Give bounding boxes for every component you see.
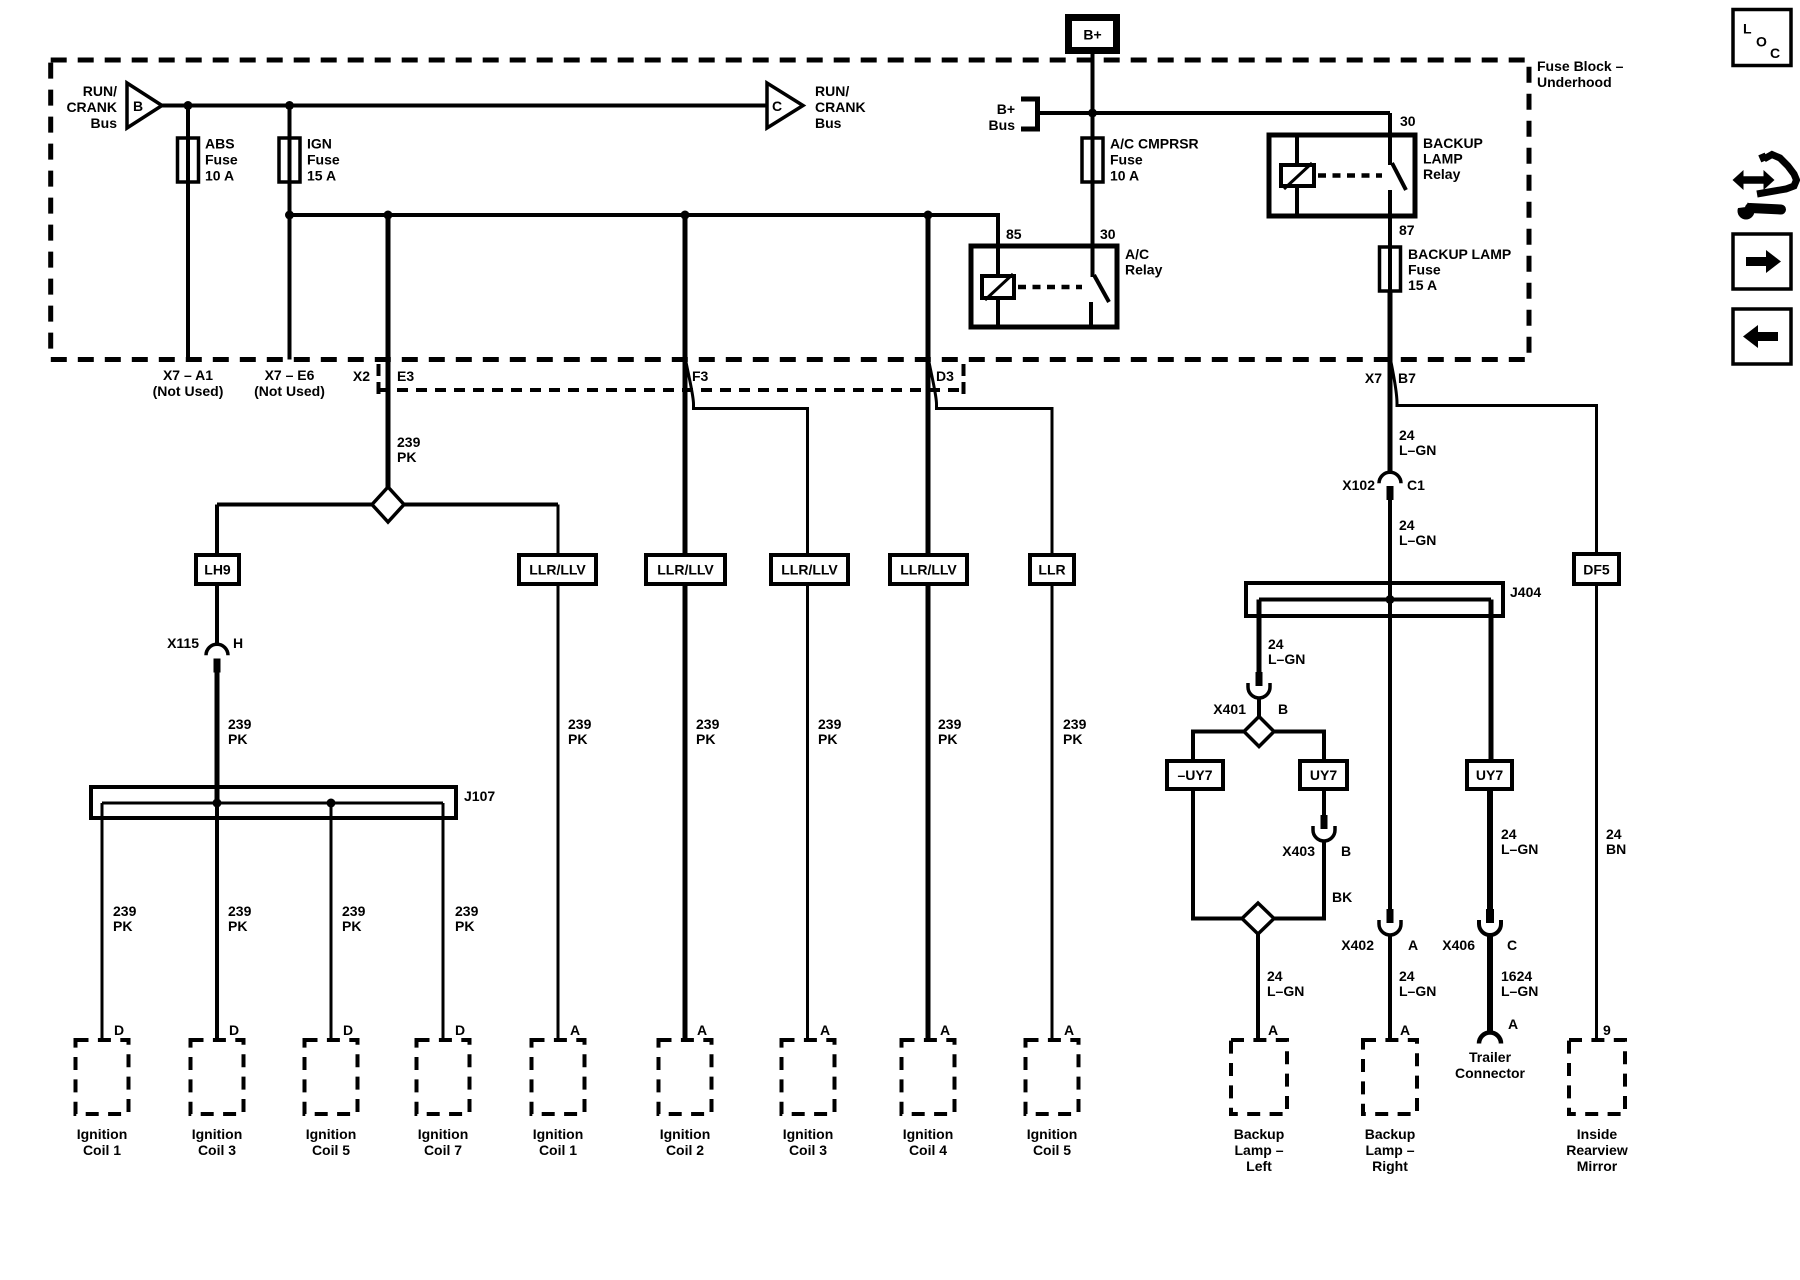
svg-text:Trailer: Trailer <box>1469 1049 1512 1065</box>
svg-text:Relay: Relay <box>1125 262 1163 278</box>
wire UY7 to X406 (heavy) <box>1487 789 1493 909</box>
dashed actuator link <box>1018 285 1082 290</box>
dashed actuator link <box>1318 173 1382 178</box>
wire X401 to splice diamond <box>1257 698 1261 718</box>
ignition coil 7 label <box>418 1126 469 1158</box>
svg-text:Bus: Bus <box>91 115 118 131</box>
wire B7 branch to DF5 <box>1391 362 1597 554</box>
svg-text:L–GN: L–GN <box>1399 983 1436 999</box>
svg-text:Inside: Inside <box>1577 1126 1618 1142</box>
svg-text:Fuse: Fuse <box>1110 152 1143 168</box>
wire label 24 BN <box>1606 826 1626 857</box>
wire B+ bus horizontal <box>1038 111 1391 115</box>
svg-text:Ignition: Ignition <box>903 1126 954 1142</box>
splice pack J107 <box>91 787 456 818</box>
splice diamond (ignition feed) <box>372 487 404 522</box>
svg-text:PK: PK <box>228 731 247 747</box>
svg-text:239: 239 <box>455 903 479 919</box>
right ignition coil 5 label <box>1027 1126 1078 1158</box>
svg-text:Ignition: Ignition <box>660 1126 711 1142</box>
ignition coil 1 box (left bank) <box>76 1040 129 1114</box>
svg-text:D: D <box>114 1022 124 1038</box>
svg-text:Ignition: Ignition <box>192 1126 243 1142</box>
svg-text:24: 24 <box>1399 968 1415 984</box>
svg-text:239: 239 <box>342 903 366 919</box>
svg-text:Lamp –: Lamp – <box>1365 1142 1414 1158</box>
svg-text:D: D <box>343 1022 353 1038</box>
label X7-E6 Not Used <box>254 367 325 399</box>
svg-text:X401: X401 <box>1213 701 1246 717</box>
svg-text:X402: X402 <box>1341 937 1374 953</box>
wire F3 branch to coil 3 <box>686 362 808 1040</box>
svg-text:–UY7: –UY7 <box>1177 767 1212 783</box>
ignition coil 3 box <box>191 1040 244 1114</box>
wire label 24 L-GN (backup left) <box>1267 968 1304 999</box>
connector X115 pin H <box>206 644 228 672</box>
ECM connector dashed boundary <box>378 364 964 394</box>
svg-text:Coil 1: Coil 1 <box>83 1142 121 1158</box>
svg-text:Backup: Backup <box>1365 1126 1416 1142</box>
wire 1624 L-GN to trailer connector <box>1487 935 1493 1032</box>
svg-text:239: 239 <box>1063 716 1087 732</box>
backup lamp left box <box>1231 1040 1287 1114</box>
RUN/CRANK Bus label (left) <box>66 83 117 131</box>
svg-text:239: 239 <box>228 903 252 919</box>
svg-text:X2: X2 <box>353 368 370 384</box>
svg-text:CRANK: CRANK <box>66 99 117 115</box>
svg-text:30: 30 <box>1400 113 1416 129</box>
wire diamond to -UY7 <box>1193 732 1244 762</box>
svg-text:Backup: Backup <box>1234 1126 1285 1142</box>
wire label 239 PK (coil5) <box>342 903 366 934</box>
junction dot J107 coil3 <box>213 799 222 808</box>
svg-text:Connector: Connector <box>1455 1065 1526 1081</box>
wire F3 to ignition coil 2 <box>683 215 688 1040</box>
connector option box LLR/LLV (coil4) <box>890 555 967 584</box>
wire J107 to ignition coil 5 <box>330 803 333 1040</box>
RUN/CRANK Bus label (right) <box>815 83 866 131</box>
svg-text:B7: B7 <box>1398 370 1416 386</box>
svg-text:X406: X406 <box>1442 937 1475 953</box>
connector option box LH9 <box>196 555 239 584</box>
wire IGN fuse drop <box>288 106 292 360</box>
coil of A/C relay <box>982 276 1014 298</box>
junction dot IGN bus start <box>285 211 294 220</box>
svg-text:J404: J404 <box>1510 584 1541 600</box>
wire label 1624 L-GN <box>1501 968 1538 999</box>
svg-text:Coil 1: Coil 1 <box>539 1142 577 1158</box>
ignition coil 5 box (right bank) <box>1026 1040 1079 1114</box>
junction dot J404 <box>1386 595 1395 604</box>
svg-text:X102: X102 <box>1342 477 1375 493</box>
svg-text:PK: PK <box>1063 731 1082 747</box>
wire LH9 to X115 <box>215 584 219 646</box>
wire diamond to UY7 <box>1274 732 1324 762</box>
wire J107 to ignition coil 7 <box>442 803 445 1040</box>
svg-text:B: B <box>1341 843 1351 859</box>
wire label 239 PK (right coil3) <box>818 716 842 747</box>
svg-text:Ignition: Ignition <box>533 1126 584 1142</box>
svg-text:BACKUP: BACKUP <box>1423 135 1483 151</box>
svg-text:RUN/: RUN/ <box>815 83 849 99</box>
BACKUP LAMP Relay label <box>1423 135 1483 182</box>
svg-text:(Not Used): (Not Used) <box>254 383 325 399</box>
svg-text:PK: PK <box>113 918 132 934</box>
svg-text:B: B <box>1278 701 1288 717</box>
svg-text:Rearview: Rearview <box>1566 1142 1628 1158</box>
svg-text:A: A <box>1400 1022 1410 1038</box>
svg-text:C1: C1 <box>1407 477 1425 493</box>
svg-text:15 A: 15 A <box>307 168 336 184</box>
svg-text:UY7: UY7 <box>1310 767 1337 783</box>
svg-text:Relay: Relay <box>1423 166 1461 182</box>
connector option box DF5 <box>1574 554 1619 584</box>
junction dot F3 tap <box>681 211 690 220</box>
svg-text:239: 239 <box>818 716 842 732</box>
ignition coil 4 box <box>902 1040 955 1114</box>
svg-text:BACKUP LAMP: BACKUP LAMP <box>1408 246 1511 262</box>
Fuse Block - Underhood label <box>1537 58 1624 90</box>
svg-text:Bus: Bus <box>815 115 842 131</box>
svg-text:C: C <box>1770 45 1780 61</box>
svg-text:A: A <box>1408 937 1418 953</box>
svg-text:Lamp –: Lamp – <box>1234 1142 1283 1158</box>
ignition coil 7 box <box>417 1040 470 1114</box>
right ignition coil 3 label <box>783 1126 834 1158</box>
svg-text:Ignition: Ignition <box>418 1126 469 1142</box>
junction dot D3 tap <box>924 211 933 220</box>
svg-text:10 A: 10 A <box>1110 168 1139 184</box>
wire splice to LH9 <box>215 505 219 556</box>
inside rearview mirror box <box>1569 1040 1625 1114</box>
backup lamp right box <box>1363 1040 1417 1114</box>
svg-text:X403: X403 <box>1282 843 1315 859</box>
svg-text:Coil 5: Coil 5 <box>1033 1142 1071 1158</box>
svg-text:L: L <box>1743 21 1752 37</box>
svg-text:L–GN: L–GN <box>1501 983 1538 999</box>
wire J107 to ignition coil 3 <box>215 803 219 1040</box>
svg-text:L–GN: L–GN <box>1268 651 1305 667</box>
svg-text:Ignition: Ignition <box>1027 1126 1078 1142</box>
wire J404 right drop to UY7 <box>1489 600 1494 762</box>
svg-text:LLR/LLV: LLR/LLV <box>900 562 957 578</box>
splice pack J404 <box>1246 583 1503 616</box>
svg-text:LLR/LLV: LLR/LLV <box>781 562 838 578</box>
svg-text:24: 24 <box>1267 968 1283 984</box>
svg-text:24: 24 <box>1606 826 1622 842</box>
svg-text:1624: 1624 <box>1501 968 1532 984</box>
svg-text:A: A <box>1268 1022 1278 1038</box>
svg-text:D3: D3 <box>936 368 954 384</box>
svg-text:DF5: DF5 <box>1583 562 1610 578</box>
wire X102 to J404 and down to X402 <box>1388 499 1392 910</box>
backup lamp right label <box>1365 1126 1416 1174</box>
svg-text:B: B <box>133 98 143 114</box>
svg-text:24: 24 <box>1399 517 1415 533</box>
svg-text:Coil 3: Coil 3 <box>198 1142 236 1158</box>
svg-text:Mirror: Mirror <box>1577 1158 1618 1174</box>
wire -UY7 down to lower splice <box>1193 789 1243 919</box>
svg-text:PK: PK <box>938 731 957 747</box>
svg-text:Coil 3: Coil 3 <box>789 1142 827 1158</box>
wire label 24 L-GN (trailer UY7) <box>1501 826 1538 857</box>
svg-text:A: A <box>697 1022 707 1038</box>
svg-text:(Not Used): (Not Used) <box>153 383 224 399</box>
svg-text:Coil 4: Coil 4 <box>909 1142 947 1158</box>
wire splice to ignition coil 1 (right bank) <box>557 505 560 1041</box>
svg-text:J107: J107 <box>464 788 495 804</box>
svg-text:C: C <box>1507 937 1517 953</box>
svg-text:Fuse: Fuse <box>307 152 340 168</box>
svg-text:H: H <box>233 635 243 651</box>
connector X102 pin C1 <box>1379 472 1401 500</box>
svg-text:239: 239 <box>568 716 592 732</box>
svg-text:BN: BN <box>1606 841 1626 857</box>
ignition coil 3 box (right bank) <box>782 1040 835 1114</box>
node B+ Bus bracket <box>1021 99 1038 129</box>
svg-text:10 A: 10 A <box>205 168 234 184</box>
wire label 24 L-GN (X401 drop) <box>1268 636 1305 667</box>
svg-text:24: 24 <box>1399 427 1415 443</box>
right ignition coil 1 label <box>533 1126 584 1158</box>
ABS fuse label <box>205 136 238 184</box>
svg-text:Coil 5: Coil 5 <box>312 1142 350 1158</box>
svg-text:IGN: IGN <box>307 136 332 152</box>
svg-text:85: 85 <box>1006 226 1022 242</box>
fuse ABS 10A <box>178 138 199 182</box>
wire relay 87 to backup fuse <box>1388 190 1392 247</box>
wire label 24 L-GN (below X102) <box>1399 517 1436 548</box>
svg-text:UY7: UY7 <box>1476 767 1503 783</box>
svg-text:X7 – E6: X7 – E6 <box>265 367 315 383</box>
wire label 239 PK (coil4) <box>938 716 962 747</box>
svg-text:PK: PK <box>818 731 837 747</box>
svg-text:Fuse Block –: Fuse Block – <box>1537 58 1624 74</box>
svg-text:239: 239 <box>113 903 137 919</box>
wire label 239 PK (coil1) <box>113 903 137 934</box>
wire label 239 PK (E3) <box>397 434 421 465</box>
ignition coil 3 label <box>192 1126 243 1158</box>
node B RUN/CRANK Bus triangle <box>127 83 162 128</box>
LOC reference box <box>1733 10 1791 66</box>
svg-text:PK: PK <box>228 918 247 934</box>
svg-text:ABS: ABS <box>205 136 235 152</box>
svg-text:239: 239 <box>696 716 720 732</box>
svg-text:LH9: LH9 <box>204 562 231 578</box>
svg-text:D: D <box>229 1022 239 1038</box>
svg-text:Fuse: Fuse <box>1408 262 1441 278</box>
svg-text:30: 30 <box>1100 226 1116 242</box>
wire backup fuse down through border <box>1388 291 1393 474</box>
connector X406 pin C <box>1479 909 1501 935</box>
svg-text:24: 24 <box>1268 636 1284 652</box>
svg-text:PK: PK <box>455 918 474 934</box>
svg-text:PK: PK <box>342 918 361 934</box>
svg-text:L–GN: L–GN <box>1399 532 1436 548</box>
ignition coil 5 label <box>306 1126 357 1158</box>
A/C CMPRSR fuse label <box>1110 136 1199 184</box>
fuse BACKUP LAMP 15A <box>1380 247 1401 291</box>
coil of backup lamp relay <box>1281 165 1314 186</box>
connector option box LLR/LLV (coil2) <box>646 555 725 584</box>
wire IGN output bus (y215) <box>290 215 999 246</box>
svg-text:Underhood: Underhood <box>1537 74 1612 90</box>
svg-text:Coil 7: Coil 7 <box>424 1142 462 1158</box>
svg-text:L–GN: L–GN <box>1267 983 1304 999</box>
svg-text:Ignition: Ignition <box>783 1126 834 1142</box>
junction dot E3 tap <box>384 211 393 220</box>
svg-text:Left: Left <box>1246 1158 1272 1174</box>
ignition coil 2 box <box>659 1040 712 1114</box>
wire RUN/CRANK bus horizontal <box>162 104 767 108</box>
wire J404 left drop to X401 <box>1257 600 1262 673</box>
svg-text:X115: X115 <box>167 635 199 651</box>
pin 85 stub <box>996 246 1000 276</box>
ignition coil 1 label <box>77 1126 128 1158</box>
splice diamond X401 <box>1244 717 1274 747</box>
service info icon (arrow and wrench) <box>1731 154 1797 220</box>
svg-text:O: O <box>1756 34 1767 50</box>
inside rearview mirror label <box>1566 1126 1628 1174</box>
svg-text:Ignition: Ignition <box>306 1126 357 1142</box>
label X7-A1 Not Used <box>153 367 224 399</box>
svg-text:LLR: LLR <box>1038 562 1065 578</box>
splice diamond backup lamp left <box>1242 903 1274 934</box>
switch pin30 and blade <box>1388 113 1392 165</box>
ignition coil 4 label <box>903 1126 954 1158</box>
svg-text:X7: X7 <box>1365 370 1382 386</box>
svg-text:LAMP: LAMP <box>1423 151 1463 167</box>
wire DF5 to inside rearview mirror <box>1595 584 1598 1040</box>
svg-text:9: 9 <box>1603 1022 1611 1038</box>
connector option box LLR/LLV (coil3) <box>771 555 848 584</box>
connector option box LLR (coil5) <box>1030 555 1074 584</box>
svg-text:239: 239 <box>397 434 421 450</box>
svg-text:PK: PK <box>397 449 416 465</box>
svg-text:A/C: A/C <box>1125 246 1149 262</box>
svg-text:BK: BK <box>1332 889 1352 905</box>
node C RUN/CRANK Bus triangle <box>767 83 803 128</box>
junction dot at ABS fuse tap <box>184 101 193 110</box>
wire label 239 PK (coil7) <box>455 903 479 934</box>
svg-text:D: D <box>455 1022 465 1038</box>
wire ABS fuse drop <box>186 106 190 360</box>
connector X401 pin B <box>1248 672 1270 698</box>
wire D3 to ignition coil 4 <box>926 215 931 1040</box>
svg-text:Bus: Bus <box>989 117 1016 133</box>
switch pin30 and blade <box>1091 246 1095 277</box>
Trailer Connector label <box>1455 1049 1526 1081</box>
svg-text:A: A <box>940 1022 950 1038</box>
svg-text:A: A <box>1508 1016 1518 1032</box>
svg-text:L–GN: L–GN <box>1501 841 1538 857</box>
svg-text:PK: PK <box>568 731 587 747</box>
wire label 239 PK (X115) <box>228 716 252 747</box>
junction dot at IGN fuse tap <box>285 101 294 110</box>
svg-text:E3: E3 <box>397 368 414 384</box>
svg-text:F3: F3 <box>692 368 709 384</box>
IGN fuse label <box>307 136 340 184</box>
svg-text:Coil 2: Coil 2 <box>666 1142 704 1158</box>
svg-text:24: 24 <box>1501 826 1517 842</box>
svg-text:239: 239 <box>938 716 962 732</box>
svg-text:CRANK: CRANK <box>815 99 866 115</box>
relay A/C <box>971 246 1117 327</box>
svg-text:B+: B+ <box>997 101 1015 117</box>
fuse IGN 15A <box>279 138 300 182</box>
ignition coil 5 box <box>305 1040 358 1114</box>
relay BACKUP LAMP <box>1269 113 1415 216</box>
svg-text:A: A <box>1064 1022 1074 1038</box>
junction dot J107 coil5 <box>327 799 336 808</box>
svg-text:RUN/: RUN/ <box>83 83 117 99</box>
forward arrow box <box>1733 234 1791 289</box>
connector option box LLR/LLV (coil1) <box>519 555 596 584</box>
svg-text:Fuse: Fuse <box>205 152 238 168</box>
wire splice to backup lamp left <box>1256 934 1260 1040</box>
svg-text:Right: Right <box>1372 1158 1408 1174</box>
svg-text:LLR/LLV: LLR/LLV <box>529 562 586 578</box>
wire 239 PK X115 to J107 <box>215 671 220 804</box>
wire A/C fuse to relay pin30 <box>1091 182 1095 246</box>
svg-text:A/C CMPRSR: A/C CMPRSR <box>1110 136 1199 152</box>
svg-text:B+: B+ <box>1083 27 1101 43</box>
connector X403 pin B <box>1313 815 1335 841</box>
ignition coil 2 label <box>660 1126 711 1158</box>
fuse A/C CMPRSR 10A <box>1082 138 1103 182</box>
wire X402 to backup lamp right <box>1388 935 1392 1040</box>
wire X403 down to lower splice <box>1274 841 1324 919</box>
Fuse Block - Underhood boundary (dashed box) <box>51 60 1529 360</box>
wire splice crossbar <box>217 503 558 507</box>
svg-text:LLR/LLV: LLR/LLV <box>657 562 714 578</box>
connector option box -UY7 <box>1167 761 1223 789</box>
wire label 239 PK (right coil5) <box>1063 716 1087 747</box>
connector option box UY7 (backup right branch) <box>1300 761 1347 789</box>
wire label 24 L-GN (backup right) <box>1399 968 1436 999</box>
trailer connector terminal arc <box>1479 1033 1501 1044</box>
svg-text:87: 87 <box>1399 222 1415 238</box>
svg-text:A: A <box>820 1022 830 1038</box>
svg-text:Ignition: Ignition <box>77 1126 128 1142</box>
A/C Relay label <box>1125 246 1163 278</box>
BACKUP LAMP fuse label <box>1408 246 1511 293</box>
svg-text:L–GN: L–GN <box>1399 442 1436 458</box>
connector option box UY7 (trailer) <box>1467 761 1512 789</box>
svg-text:PK: PK <box>696 731 715 747</box>
connector X402 pin A <box>1379 909 1401 935</box>
wire J107 to ignition coil 1 <box>101 803 104 1040</box>
coil stubs <box>1295 135 1299 165</box>
svg-text:X7 – A1: X7 – A1 <box>163 367 213 383</box>
power feed B+ box <box>1069 18 1117 51</box>
wire label 239 PK (right coil1) <box>568 716 592 747</box>
back arrow box <box>1733 309 1791 364</box>
svg-text:239: 239 <box>228 716 252 732</box>
wire label 239 PK (coil3) <box>228 903 252 934</box>
wire label 239 PK (coil2) <box>696 716 720 747</box>
wire 239 PK from E3 to splice <box>386 215 391 490</box>
wire label 24 L-GN (above X102) <box>1399 427 1436 458</box>
ignition coil 1 box (right bank) <box>532 1040 585 1114</box>
wire D3 branch to coil 5 <box>929 362 1052 1040</box>
wire B+ drop to fuse <box>1091 54 1095 138</box>
svg-text:C: C <box>772 98 782 114</box>
junction dot B+ bus <box>1088 109 1097 118</box>
wire UY7 to X403 <box>1322 789 1326 815</box>
B+ Bus label <box>989 101 1016 133</box>
svg-text:A: A <box>570 1022 580 1038</box>
